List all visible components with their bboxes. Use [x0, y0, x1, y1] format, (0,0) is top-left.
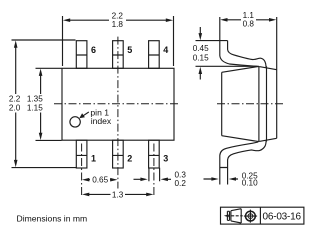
svg-text:0.8: 0.8 [243, 20, 255, 29]
svg-text:1.8: 1.8 [112, 20, 124, 29]
svg-text:index: index [91, 116, 112, 126]
svg-text:0.45: 0.45 [193, 44, 209, 53]
svg-text:06-03-16: 06-03-16 [262, 211, 301, 222]
svg-text:6: 6 [91, 45, 96, 55]
svg-text:0.2: 0.2 [175, 179, 187, 188]
svg-text:1: 1 [91, 154, 96, 164]
svg-text:2.2: 2.2 [112, 11, 124, 20]
svg-text:0.15: 0.15 [193, 54, 209, 63]
svg-text:2: 2 [127, 154, 132, 164]
svg-text:Dimensions in mm: Dimensions in mm [17, 214, 88, 224]
svg-text:3: 3 [163, 154, 168, 164]
svg-text:2.0: 2.0 [9, 103, 21, 112]
svg-text:0.10: 0.10 [242, 179, 258, 188]
svg-text:1.3: 1.3 [112, 191, 124, 200]
svg-text:5: 5 [127, 45, 132, 55]
svg-text:4: 4 [163, 45, 168, 55]
svg-text:1.15: 1.15 [27, 103, 43, 112]
svg-text:0.65: 0.65 [92, 176, 108, 185]
